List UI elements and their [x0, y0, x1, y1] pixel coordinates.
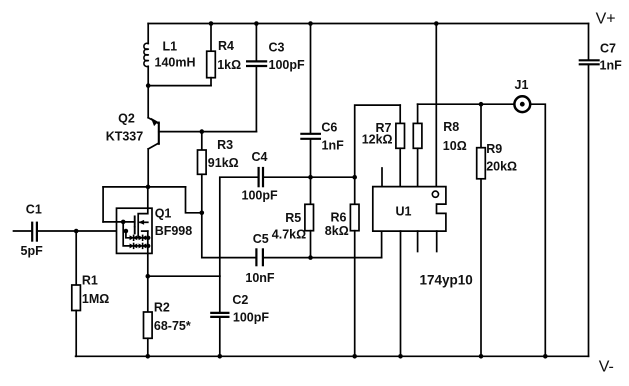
mosfet Q1 protection diodes row2: [123, 222, 130, 246]
resistor R1: [75, 231, 77, 285]
resistor R9: [480, 104, 482, 148]
svg-text:68-75*: 68-75*: [154, 319, 191, 333]
wire drain to R3 bottom: [186, 187, 202, 213]
svg-text:R1: R1: [82, 274, 98, 288]
svg-text:10nF: 10nF: [245, 271, 275, 285]
inductor L1: [147, 24, 149, 44]
resistor R4: [210, 24, 212, 52]
svg-text:R5: R5: [285, 211, 301, 225]
svg-text:91kΩ: 91kΩ: [208, 156, 239, 170]
svg-text:R3: R3: [217, 138, 233, 152]
wire Q2 base to C3 column: [159, 131, 257, 133]
svg-text:C2: C2: [232, 293, 248, 307]
svg-text:100pF: 100pF: [269, 58, 305, 72]
svg-text:R6: R6: [331, 211, 347, 225]
U1 pin V+: [435, 24, 437, 187]
svg-text:4.7kΩ: 4.7kΩ: [272, 228, 306, 242]
wire J1 output: [531, 104, 546, 356]
connector J1: [514, 96, 530, 112]
wire R7 top loop: [355, 105, 401, 177]
mosfet Q1 protection diodes row1: [126, 231, 130, 238]
wire U1 pin1 bottom: [381, 231, 383, 258]
svg-text:C3: C3: [269, 41, 285, 55]
svg-text:5pF: 5pF: [21, 244, 44, 258]
capacitor C3: [255, 24, 257, 61]
wire right rail upper: [588, 24, 590, 60]
svg-text:1nF: 1nF: [600, 59, 623, 73]
U1 pin bottom stub2: [436, 231, 438, 251]
svg-text:Q2: Q2: [118, 112, 135, 126]
svg-text:V+: V+: [596, 10, 616, 27]
svg-text:C7: C7: [600, 42, 616, 56]
resistor R6: [354, 177, 356, 204]
mosfet Q1 box: [117, 208, 153, 253]
mosfet Q1 gate1 wire: [103, 221, 135, 223]
svg-text:R2: R2: [154, 301, 170, 315]
svg-text:R8: R8: [443, 120, 459, 134]
mosfet Q1 gate bars: [134, 216, 136, 226]
svg-text:1nF: 1nF: [322, 139, 345, 153]
capacitor C2: [219, 276, 221, 312]
svg-text:8kΩ: 8kΩ: [325, 224, 349, 238]
wire C4 left column: [220, 177, 258, 276]
mosfet Q1 source lead: [147, 231, 149, 276]
svg-text:140mH: 140mH: [155, 55, 196, 69]
U1 pin bottom to rail: [400, 231, 402, 356]
capacitor C7: [580, 60, 599, 64]
svg-text:100pF: 100pF: [242, 189, 278, 203]
U1 pin top stub: [381, 168, 383, 187]
svg-text:Q1: Q1: [155, 207, 172, 221]
wire J1 feed: [418, 103, 514, 105]
svg-text:BF998: BF998: [155, 224, 193, 238]
svg-text:V-: V-: [599, 359, 614, 376]
transistor Q2: [147, 86, 149, 118]
resistor R7: [399, 105, 401, 123]
U1 pin bottom stub1: [417, 231, 419, 251]
wire right rail lower: [588, 66, 590, 357]
wire gate1 loop left: [102, 187, 104, 222]
svg-text:R9: R9: [486, 142, 502, 156]
resistor R5: [305, 204, 314, 230]
svg-text:174yp10: 174yp10: [420, 273, 473, 288]
svg-text:J1: J1: [515, 78, 529, 92]
capacitor C5: [256, 249, 263, 265]
capacitor C4: [259, 168, 263, 186]
resistor R3: [201, 132, 203, 150]
svg-text:20kΩ: 20kΩ: [486, 160, 517, 174]
svg-text:1MΩ: 1MΩ: [82, 292, 109, 306]
svg-text:C6: C6: [321, 121, 337, 135]
op-amp U1: [373, 187, 446, 232]
capacitor C1: [14, 230, 32, 232]
wire source to C2 column: [148, 275, 220, 277]
svg-text:12kΩ: 12kΩ: [362, 133, 393, 147]
svg-text:R4: R4: [218, 39, 234, 53]
wire bottom rail V-: [76, 355, 589, 357]
wire top rail V+: [148, 23, 588, 25]
svg-text:100pF: 100pF: [233, 310, 269, 324]
wire L1/R4 bottom link: [148, 85, 211, 87]
resistor R2: [147, 276, 149, 312]
capacitor C6: [310, 24, 312, 133]
resistor R8: [417, 104, 419, 123]
svg-text:C1: C1: [26, 203, 42, 217]
mosfet Q1 drain lead: [138, 187, 148, 237]
wire C5 left column: [202, 213, 256, 258]
mosfet Q1 bulk arrow: [140, 221, 148, 223]
svg-text:KT337: KT337: [106, 130, 144, 144]
svg-text:10Ω: 10Ω: [443, 139, 467, 153]
svg-text:C4: C4: [252, 150, 268, 164]
svg-text:L1: L1: [163, 40, 178, 54]
svg-text:1kΩ: 1kΩ: [217, 58, 241, 72]
svg-text:U1: U1: [396, 205, 412, 219]
wire Q1 drain node: [103, 186, 185, 188]
svg-text:C5: C5: [253, 232, 269, 246]
